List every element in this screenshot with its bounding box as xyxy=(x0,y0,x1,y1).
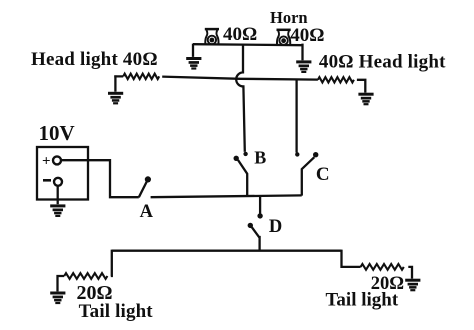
svg-text:+: + xyxy=(42,154,51,170)
horn bus wire xyxy=(193,44,303,45)
svg-text:40Ω: 40Ω xyxy=(290,25,324,46)
wire stub D from mid rail xyxy=(259,196,261,214)
svg-text:Tail light: Tail light xyxy=(326,289,399,310)
wire left tail resistor to ground xyxy=(58,276,65,291)
resistor right tail 20 ohm xyxy=(361,264,404,270)
ground right tail xyxy=(405,279,420,292)
switch C fixed contact dot xyxy=(295,152,299,156)
svg-text:B: B xyxy=(254,148,266,168)
switch A blade dot xyxy=(145,176,151,182)
wire rail to switch C xyxy=(295,79,297,152)
ground right horn xyxy=(296,60,311,73)
svg-text:Tail light: Tail light xyxy=(79,301,154,322)
ground right headlight xyxy=(358,93,373,106)
wire rail left end to ground xyxy=(114,75,116,91)
wire bottom rail down to right tail resistor xyxy=(342,250,361,267)
switch B fixed contact dot xyxy=(243,152,247,156)
wire battery - to ground xyxy=(57,185,59,204)
switch D blade xyxy=(252,227,260,251)
ground left headlight xyxy=(108,92,123,105)
svg-text:10V: 10V xyxy=(39,121,75,145)
horn 2 (right) xyxy=(277,30,291,45)
ground left horn xyxy=(186,57,201,70)
wire horn bus to switch B with hop over rail xyxy=(236,44,245,152)
wire switch A to switch C (mid rail) xyxy=(151,195,302,197)
svg-text:D: D xyxy=(269,217,282,237)
resistor right headlight 40 ohm xyxy=(318,77,354,82)
switch D blade dot xyxy=(248,223,253,228)
wire horn bus left end to ground xyxy=(192,44,194,57)
battery + terminal xyxy=(53,156,61,164)
battery - sign xyxy=(43,179,51,182)
battery - terminal xyxy=(54,178,62,186)
svg-text:40Ω Head light: 40Ω Head light xyxy=(319,51,446,72)
svg-text:Head light 40Ω: Head light 40Ω xyxy=(31,49,158,70)
switch A blade xyxy=(139,182,147,198)
svg-text:40Ω: 40Ω xyxy=(223,24,257,45)
switch C blade xyxy=(302,157,315,195)
wire right tail resistor to ground xyxy=(408,267,412,279)
switch B blade dot xyxy=(234,156,239,161)
svg-text:A: A xyxy=(140,202,154,222)
ground battery xyxy=(50,204,65,217)
switch D fixed contact dot xyxy=(257,213,262,218)
switch C blade dot xyxy=(313,152,318,157)
battery V1 box xyxy=(37,147,88,200)
bottom rail (tail light bus) xyxy=(112,250,342,252)
ground left tail xyxy=(50,292,65,305)
horn 1 (left) xyxy=(205,29,219,44)
svg-text:C: C xyxy=(316,164,330,185)
wire battery + to switch A xyxy=(61,160,139,197)
main top rail left segment xyxy=(114,76,318,79)
wire horn bus right end to ground xyxy=(301,44,303,61)
resistor left headlight 40 ohm xyxy=(123,74,159,79)
resistor left tail 20 ohm xyxy=(64,273,107,279)
switch B blade xyxy=(238,160,247,197)
wire bottom rail down to left tail resistor xyxy=(111,250,112,276)
wire rail right end to ground xyxy=(357,80,365,93)
